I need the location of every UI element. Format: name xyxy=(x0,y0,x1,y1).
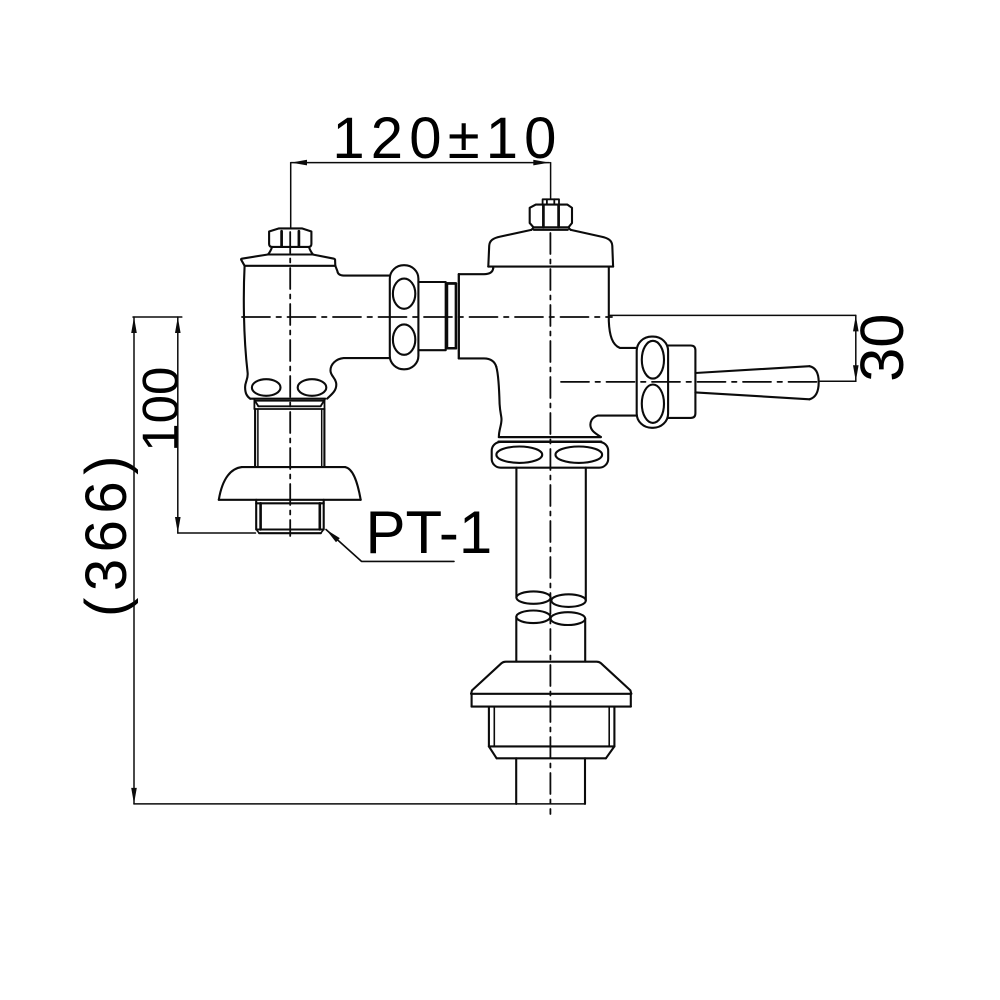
dimension (366) line and arrows xyxy=(131,317,585,804)
left valve pipe to dome xyxy=(255,409,324,467)
bottom outlet pipe xyxy=(516,758,585,804)
left valve arm bottom and S-curve to flange xyxy=(327,358,390,399)
label PT-1 leader arrow xyxy=(326,530,454,562)
centerline handle horizontal xyxy=(561,381,818,383)
svg-text:120±10: 120±10 xyxy=(332,106,562,171)
middle coupling ellipse top xyxy=(393,279,415,309)
left valve top hex nut xyxy=(268,228,313,254)
svg-text:30: 30 xyxy=(848,313,917,381)
svg-text:PT-1: PT-1 xyxy=(366,499,493,566)
right valve flange xyxy=(492,442,609,468)
dimension (366) text xyxy=(74,449,139,617)
right valve flange ellipse left xyxy=(496,447,542,463)
centerline left valve vertical xyxy=(289,232,291,536)
label PT-1 text xyxy=(366,499,493,566)
right valve upper down pipe xyxy=(516,468,585,601)
right valve top hex nut xyxy=(530,205,572,230)
svg-text:100: 100 xyxy=(132,367,189,452)
pipe break upper ellipse right xyxy=(551,594,585,607)
dimension 100 text xyxy=(132,367,189,452)
dimension 120±10 line and arrows xyxy=(291,160,551,228)
right valve flange ellipse right xyxy=(556,447,603,463)
svg-text:(366): (366) xyxy=(74,449,139,617)
right valve bonnet xyxy=(488,230,613,267)
middle coupling thread band xyxy=(447,283,456,348)
spud locknut xyxy=(489,707,615,759)
left valve body left edge xyxy=(244,266,250,399)
pipe break lower ellipse right xyxy=(551,612,586,625)
dimension 30 line and arrows xyxy=(610,315,859,381)
middle coupling ellipse bottom xyxy=(393,324,415,354)
middle coupling cylinder xyxy=(418,282,445,350)
dimension 100 line and arrows xyxy=(175,317,256,533)
left valve bottom hex nut PT-1 xyxy=(256,500,324,533)
dimension 30 text xyxy=(848,313,917,381)
left valve nipple band xyxy=(254,399,324,409)
right valve gasket lines xyxy=(499,437,602,442)
handle coupling ellipse top xyxy=(642,341,664,379)
spud flange xyxy=(471,662,631,707)
handle packing nut xyxy=(668,346,695,418)
centerline right valve vertical xyxy=(549,233,551,814)
left valve flange bottom edge xyxy=(250,398,325,400)
pipe break lower ellipse left xyxy=(516,611,550,624)
left valve dome escutcheon xyxy=(219,467,361,500)
right valve stem on top xyxy=(543,199,559,204)
centerline horizontal main xyxy=(242,316,612,318)
left valve bonnet xyxy=(241,255,335,266)
lower pipe to spud xyxy=(516,617,585,662)
left valve flange ellipse right xyxy=(298,379,327,396)
handle coupling capsule xyxy=(637,337,668,428)
handle coupling ellipse bottom xyxy=(642,385,664,423)
right valve inlet horn xyxy=(459,268,497,367)
handle lever xyxy=(695,366,818,399)
right valve body upper edges xyxy=(493,267,637,348)
middle coupling capsule nut xyxy=(390,265,419,369)
left valve body right edge and arm top xyxy=(335,266,390,276)
dimension 120±10 text xyxy=(332,106,562,171)
right valve inlet thread band xyxy=(447,284,456,349)
right valve body left edge to flange xyxy=(496,367,501,437)
left valve flange ellipse left xyxy=(252,379,281,396)
pipe break upper ellipse left xyxy=(516,591,550,603)
right valve body right lower shelf and S-curve xyxy=(590,416,637,437)
